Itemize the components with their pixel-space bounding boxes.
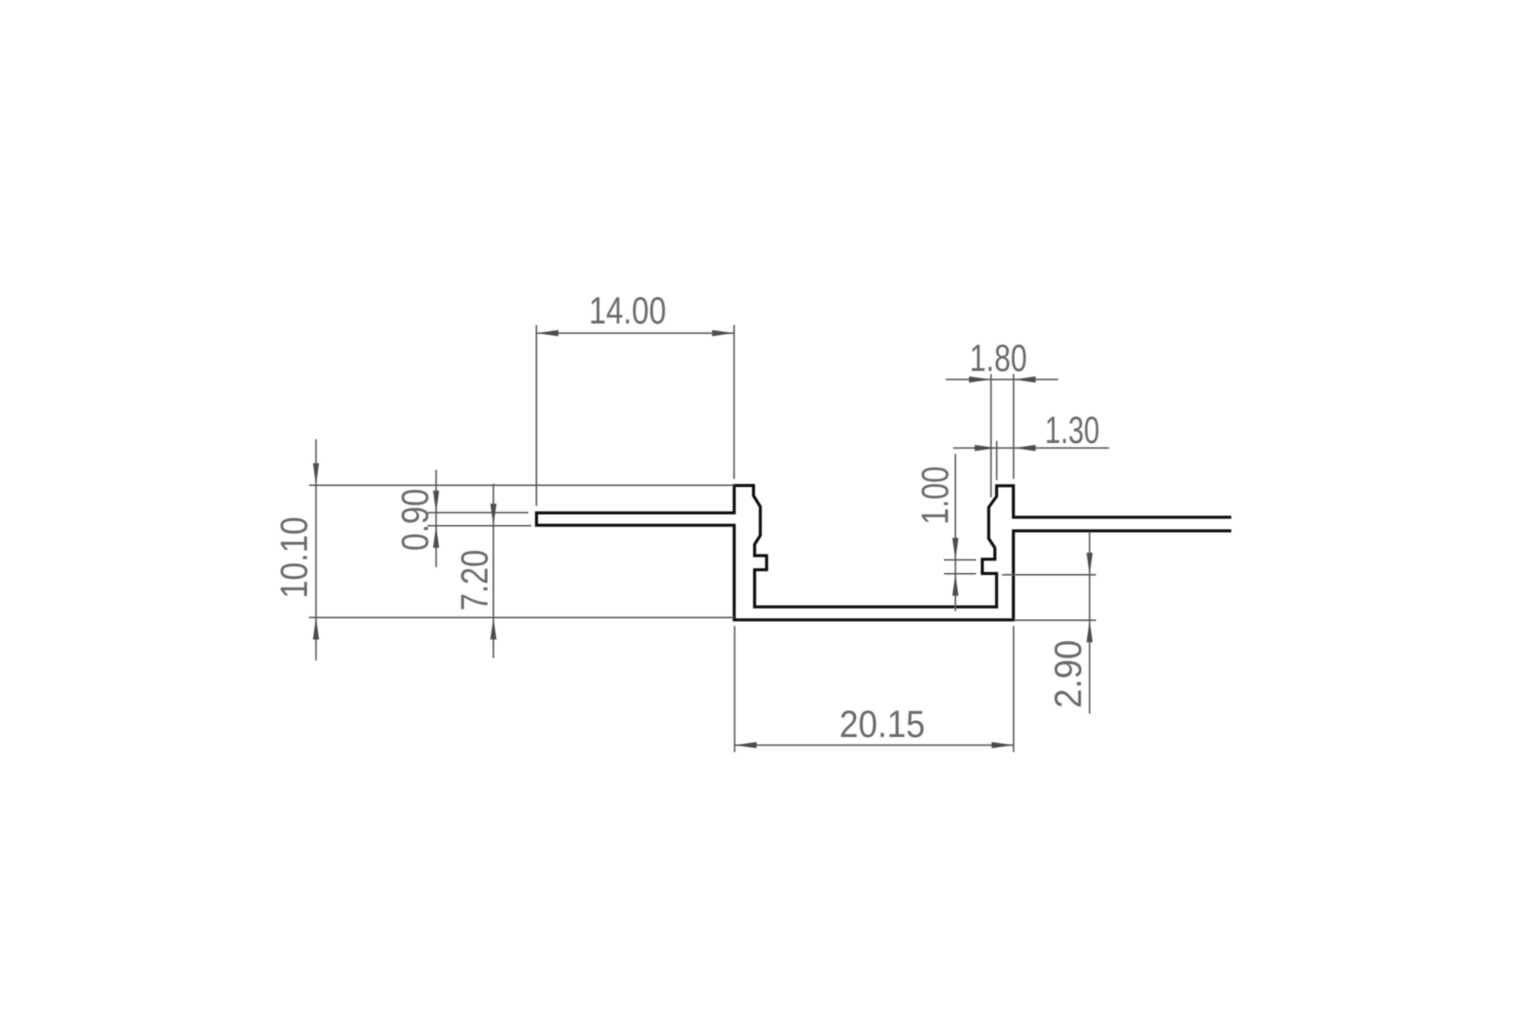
dimension 1.30: [953, 441, 1109, 480]
svg-text:20.15: 20.15: [839, 704, 925, 746]
svg-text:1.80: 1.80: [970, 338, 1027, 380]
dimension 7.20: [492, 484, 494, 658]
dimension 20.15: [735, 626, 1014, 752]
svg-text:14.00: 14.00: [589, 291, 666, 333]
dimension 14.00: [536, 325, 734, 506]
svg-text:1.00: 1.00: [915, 466, 957, 524]
svg-text:10.10: 10.10: [274, 517, 316, 599]
dimension 1.80: [946, 374, 1058, 497]
dimension 2.90: [1002, 532, 1096, 714]
svg-text:7.20: 7.20: [455, 550, 497, 611]
svg-text:0.90: 0.90: [395, 489, 437, 551]
dimension 10.10: [309, 439, 734, 660]
svg-text:2.90: 2.90: [1048, 640, 1090, 708]
profile outline: [537, 486, 1232, 620]
dimension 1.00: [944, 454, 976, 611]
svg-text:1.30: 1.30: [1045, 410, 1100, 452]
dimension 0.90: [427, 470, 531, 567]
